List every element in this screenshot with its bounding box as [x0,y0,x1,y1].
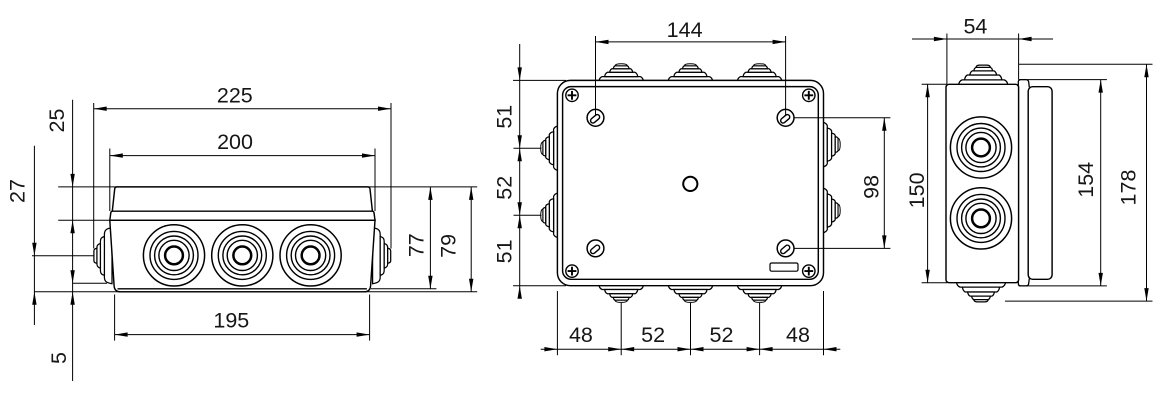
svg-text:52: 52 [493,176,517,200]
grommet 2 (front) [212,225,273,286]
svg-text:48: 48 [786,323,810,347]
svg-text:77: 77 [405,233,429,257]
svg-text:5: 5 [47,352,71,364]
left nub 1 [541,126,558,170]
svg-text:154: 154 [1074,162,1098,198]
extension lines left of front view [32,187,117,283]
bottom nub 3 [737,285,781,302]
lid top lip [1018,80,1029,88]
dimension 178 [1005,64,1153,301]
box body (side view) [946,84,1019,282]
corner screw TL [566,89,578,101]
svg-text:51: 51 [493,105,517,129]
svg-text:195: 195 [213,308,249,332]
lid flange rim [110,211,375,220]
left side nub (stepped cable gland, front view) [94,228,112,284]
body bottom step line [118,288,367,290]
dimension 154 [1019,80,1107,286]
dimension 79 [437,187,474,292]
corner screw BR [803,265,815,277]
dimension 27 [5,146,36,325]
grommet 3 (front) [280,225,341,286]
dimension 200 [110,130,375,211]
corner screw BL [566,265,578,277]
box lid (front view trapezoid) [112,187,372,211]
svg-text:150: 150 [905,172,929,208]
svg-text:52: 52 [641,323,665,347]
dimension 25 and 5 shared line [45,100,75,381]
bottom nub 1 [599,285,643,302]
left nub 2 [541,193,558,237]
svg-text:54: 54 [963,14,987,38]
svg-text:27: 27 [5,179,29,203]
corner screw TR [803,89,815,101]
svg-text:25: 25 [45,109,69,133]
dimensions 51/52/51 (left chain) [493,44,567,299]
grommet 2 (side) [950,188,1011,249]
dimensions 48/52/52/48 (bottom chain) [541,291,841,355]
box body (front view) [110,220,375,291]
dimension 54 [912,14,1053,84]
svg-text:178: 178 [1116,170,1140,206]
svg-text:52: 52 [710,323,734,347]
svg-text:79: 79 [437,234,461,258]
side view top nub [959,65,1008,85]
lid screw BL [587,240,604,257]
dimension 150 [905,84,947,282]
dimension 98 [795,118,891,249]
right side nub (stepped cable gland, front view) [373,228,391,284]
label plate [770,263,798,271]
bottom nub 2 [668,285,712,302]
dimension 225 [94,84,391,249]
lid bottom lip [1018,278,1029,286]
svg-text:98: 98 [859,175,883,199]
svg-text:144: 144 [667,18,703,42]
dimension 144 [596,18,786,116]
grommet 1 (front) [143,225,204,286]
box inner outline (lid edge, top view) [563,87,819,280]
svg-text:200: 200 [217,130,253,154]
right nub 2 [823,188,840,232]
right nub 1 [823,122,840,166]
svg-text:51: 51 [493,239,517,263]
lid screw TL [587,109,604,126]
top nub 3 [737,64,781,81]
svg-text:48: 48 [569,323,593,347]
grommet 1 (side) [950,117,1011,178]
top nub 1 [599,64,643,81]
center hole [683,177,697,191]
lid screw TR [777,109,794,126]
box outer outline (top view) [557,80,823,285]
top nub 2 [668,64,712,81]
side view bottom nub [956,282,1005,302]
lid screw BR [777,240,794,257]
svg-text:225: 225 [217,84,253,108]
dimension 195 [115,295,370,341]
extension lines right of front view [34,187,477,292]
lid (side view) [1028,87,1052,280]
dimension 77 [405,187,433,289]
